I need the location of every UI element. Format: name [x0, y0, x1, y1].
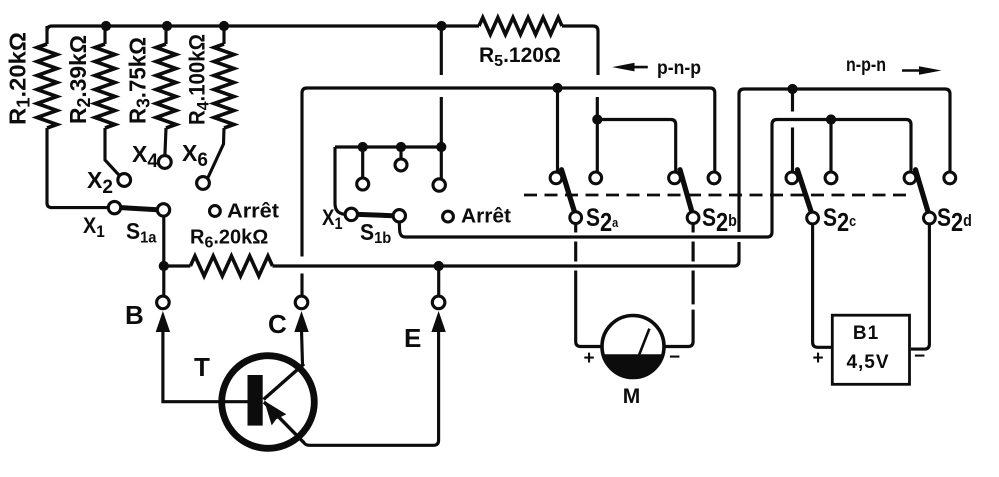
svg-text:−: −: [914, 346, 925, 367]
svg-text:R2.39kΩ: R2.39kΩ: [65, 35, 94, 124]
svg-text:+: +: [583, 348, 594, 369]
svg-text:T: T: [194, 352, 210, 382]
svg-text:B: B: [125, 300, 144, 330]
svg-text:B1: B1: [853, 323, 879, 344]
svg-text:Arrêt: Arrêt: [461, 206, 511, 228]
svg-text:R3.75kΩ: R3.75kΩ: [125, 37, 154, 124]
svg-text:−: −: [669, 347, 680, 368]
svg-text:R6.20kΩ: R6.20kΩ: [190, 227, 268, 252]
svg-text:n-p-n: n-p-n: [846, 54, 886, 76]
svg-text:p-n-p: p-n-p: [657, 57, 701, 79]
svg-text:R1.20kΩ: R1.20kΩ: [5, 32, 34, 125]
svg-text:Arrêt: Arrêt: [227, 201, 279, 223]
svg-text:+: +: [812, 348, 823, 369]
svg-text:E: E: [404, 323, 421, 353]
svg-text:C: C: [268, 309, 287, 339]
svg-text:M: M: [623, 385, 641, 408]
svg-text:4,5V: 4,5V: [846, 352, 889, 373]
svg-text:R5.120Ω: R5.120Ω: [479, 44, 561, 70]
svg-text:R4.100kΩ: R4.100kΩ: [185, 34, 213, 125]
